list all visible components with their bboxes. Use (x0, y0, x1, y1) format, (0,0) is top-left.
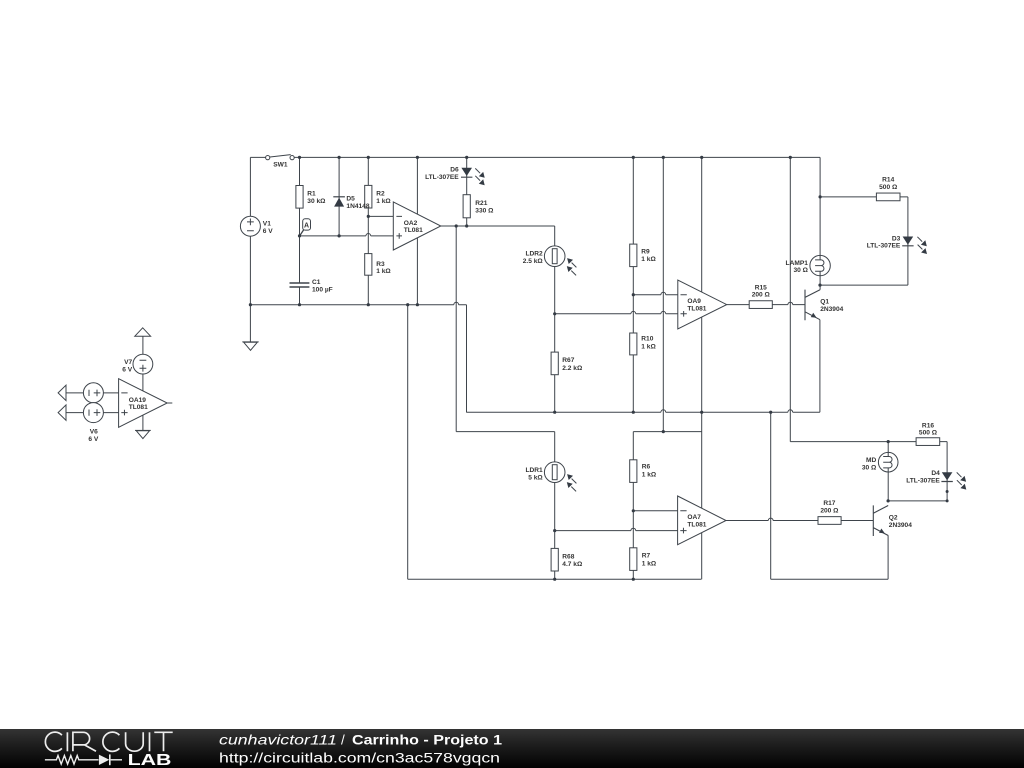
svg-text:V6: V6 (90, 429, 98, 436)
svg-text:R67: R67 (562, 357, 574, 364)
svg-text:Q2: Q2 (889, 515, 898, 522)
svg-text:6 V: 6 V (122, 367, 132, 374)
svg-text:100 µF: 100 µF (312, 287, 333, 294)
svg-text:200 Ω: 200 Ω (820, 507, 839, 514)
svg-text:5 kΩ: 5 kΩ (528, 474, 543, 481)
svg-text:R10: R10 (641, 336, 653, 343)
svg-text:cunhavictor111: cunhavictor111 (219, 733, 337, 748)
svg-text:V1: V1 (263, 221, 271, 228)
svg-text:2N3904: 2N3904 (889, 522, 912, 529)
svg-text:500 Ω: 500 Ω (919, 430, 938, 437)
svg-text:R1: R1 (307, 191, 316, 198)
svg-text:OA19: OA19 (129, 397, 147, 404)
svg-text:D3: D3 (892, 235, 901, 242)
svg-text:LTL-307EE: LTL-307EE (906, 477, 940, 484)
svg-text:2.2 kΩ: 2.2 kΩ (562, 365, 583, 372)
svg-text:1N4148: 1N4148 (346, 203, 369, 210)
svg-text:LTL-307EE: LTL-307EE (425, 174, 459, 181)
svg-text:2.5 kΩ: 2.5 kΩ (523, 258, 544, 265)
svg-text:1 kΩ: 1 kΩ (642, 472, 657, 479)
svg-text:Q1: Q1 (820, 298, 829, 305)
svg-text:1 kΩ: 1 kΩ (642, 561, 657, 568)
svg-text:D6: D6 (450, 166, 459, 173)
svg-text:30 kΩ: 30 kΩ (307, 198, 326, 205)
svg-text:R14: R14 (882, 177, 894, 184)
svg-text:R7: R7 (642, 553, 651, 560)
svg-text:1 kΩ: 1 kΩ (641, 256, 656, 263)
svg-text:500 Ω: 500 Ω (879, 184, 898, 191)
svg-text:/: / (341, 733, 345, 748)
svg-text:1 kΩ: 1 kΩ (376, 268, 391, 275)
svg-text:6 V: 6 V (263, 228, 273, 235)
svg-text:200 Ω: 200 Ω (752, 292, 771, 299)
svg-text:D4: D4 (931, 470, 940, 477)
svg-text:R9: R9 (641, 248, 650, 255)
svg-text:R2: R2 (376, 191, 385, 198)
svg-text:LDR2: LDR2 (525, 251, 543, 258)
svg-text:1 kΩ: 1 kΩ (376, 198, 391, 205)
svg-text:330 Ω: 330 Ω (475, 208, 494, 215)
svg-text:2N3904: 2N3904 (820, 306, 843, 313)
svg-text:R16: R16 (922, 422, 934, 429)
svg-text:R21: R21 (475, 200, 487, 207)
svg-text:TL081: TL081 (687, 306, 706, 313)
svg-text:A: A (304, 223, 309, 230)
svg-text:4.7 kΩ: 4.7 kΩ (562, 561, 583, 568)
svg-text:LAMP1: LAMP1 (786, 260, 809, 267)
svg-text:LDR1: LDR1 (525, 467, 543, 474)
svg-text:TL081: TL081 (129, 404, 148, 411)
svg-text:30 Ω: 30 Ω (793, 267, 808, 274)
svg-text:1 kΩ: 1 kΩ (641, 343, 656, 350)
svg-text:Carrinho - Projeto 1: Carrinho - Projeto 1 (352, 733, 503, 748)
svg-text:R68: R68 (562, 553, 574, 560)
svg-text:TL081: TL081 (404, 227, 423, 234)
svg-text:R6: R6 (642, 464, 651, 471)
svg-text:http://circuitlab.com/cn3ac578: http://circuitlab.com/cn3ac578vgqcn (219, 750, 500, 765)
svg-text:OA9: OA9 (687, 298, 701, 305)
svg-text:LTL-307EE: LTL-307EE (867, 242, 901, 249)
svg-text:OA7: OA7 (687, 514, 701, 521)
svg-text:SW1: SW1 (273, 162, 288, 169)
svg-text:C1: C1 (312, 279, 321, 286)
svg-text:V7: V7 (124, 359, 132, 366)
svg-text:R3: R3 (376, 261, 385, 268)
svg-text:LAB: LAB (128, 752, 172, 768)
svg-text:6 V: 6 V (88, 436, 98, 443)
svg-text:30 Ω: 30 Ω (862, 465, 877, 472)
svg-text:D5: D5 (346, 196, 355, 203)
svg-text:R15: R15 (755, 284, 767, 291)
svg-text:TL081: TL081 (687, 522, 706, 529)
svg-text:R17: R17 (823, 500, 835, 507)
svg-text:MD: MD (866, 457, 876, 464)
